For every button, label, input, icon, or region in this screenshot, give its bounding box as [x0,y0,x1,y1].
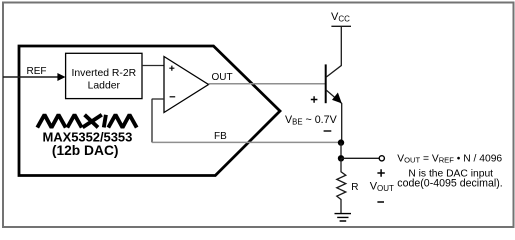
minus marker Vout [377,201,384,203]
plus marker Vbe [311,96,318,103]
MAXIM logo [37,115,136,128]
wire OUT from op-amp to transistor base [209,83,326,85]
minus marker Vbe [324,130,332,132]
wire between junctions [340,143,342,159]
svg-text:(12b DAC): (12b DAC) [52,143,119,158]
svg-text:Inverted R-2R: Inverted R-2R [71,68,136,79]
R-2R ladder block [66,53,142,98]
svg-text:OUT: OUT [212,72,233,83]
resistor R [337,158,346,213]
op-amp plus input marker [169,66,174,71]
wire ladder to op-amp non-inverting input [142,65,164,67]
svg-text:REF: REF [27,66,47,77]
node junction dot 1 [338,139,344,145]
wire REF input [3,76,59,78]
wire feedback vertical [151,99,153,142]
svg-text:FB: FB [214,131,227,142]
svg-text:VOUT = VREF • N / 4096: VOUT = VREF • N / 4096 [397,153,502,164]
svg-text:R: R [351,182,358,193]
output terminal open circle [379,156,384,161]
wire FB horizontal [152,141,341,143]
op-amp U1 [164,57,209,113]
REF arrowhead [57,73,65,81]
transistor Q1 emitter arrowhead [332,93,342,104]
wire inverting input tick [152,98,164,100]
svg-text:code(0-4095 decimal).: code(0-4095 decimal). [397,178,502,190]
plus marker Vout [377,169,384,176]
node junction dot 2 [338,155,344,161]
ground [335,214,352,221]
svg-text:Ladder: Ladder [88,81,121,92]
DAC package outline MAX5352/5353 [19,46,280,176]
wire to output terminal [341,157,379,159]
op-amp minus input marker [170,96,176,98]
transistor Q1 base bar [325,64,327,103]
transistor Q1 emitter [326,90,342,143]
transistor Q1 collector [326,26,342,77]
Vcc rail tick [331,25,351,27]
